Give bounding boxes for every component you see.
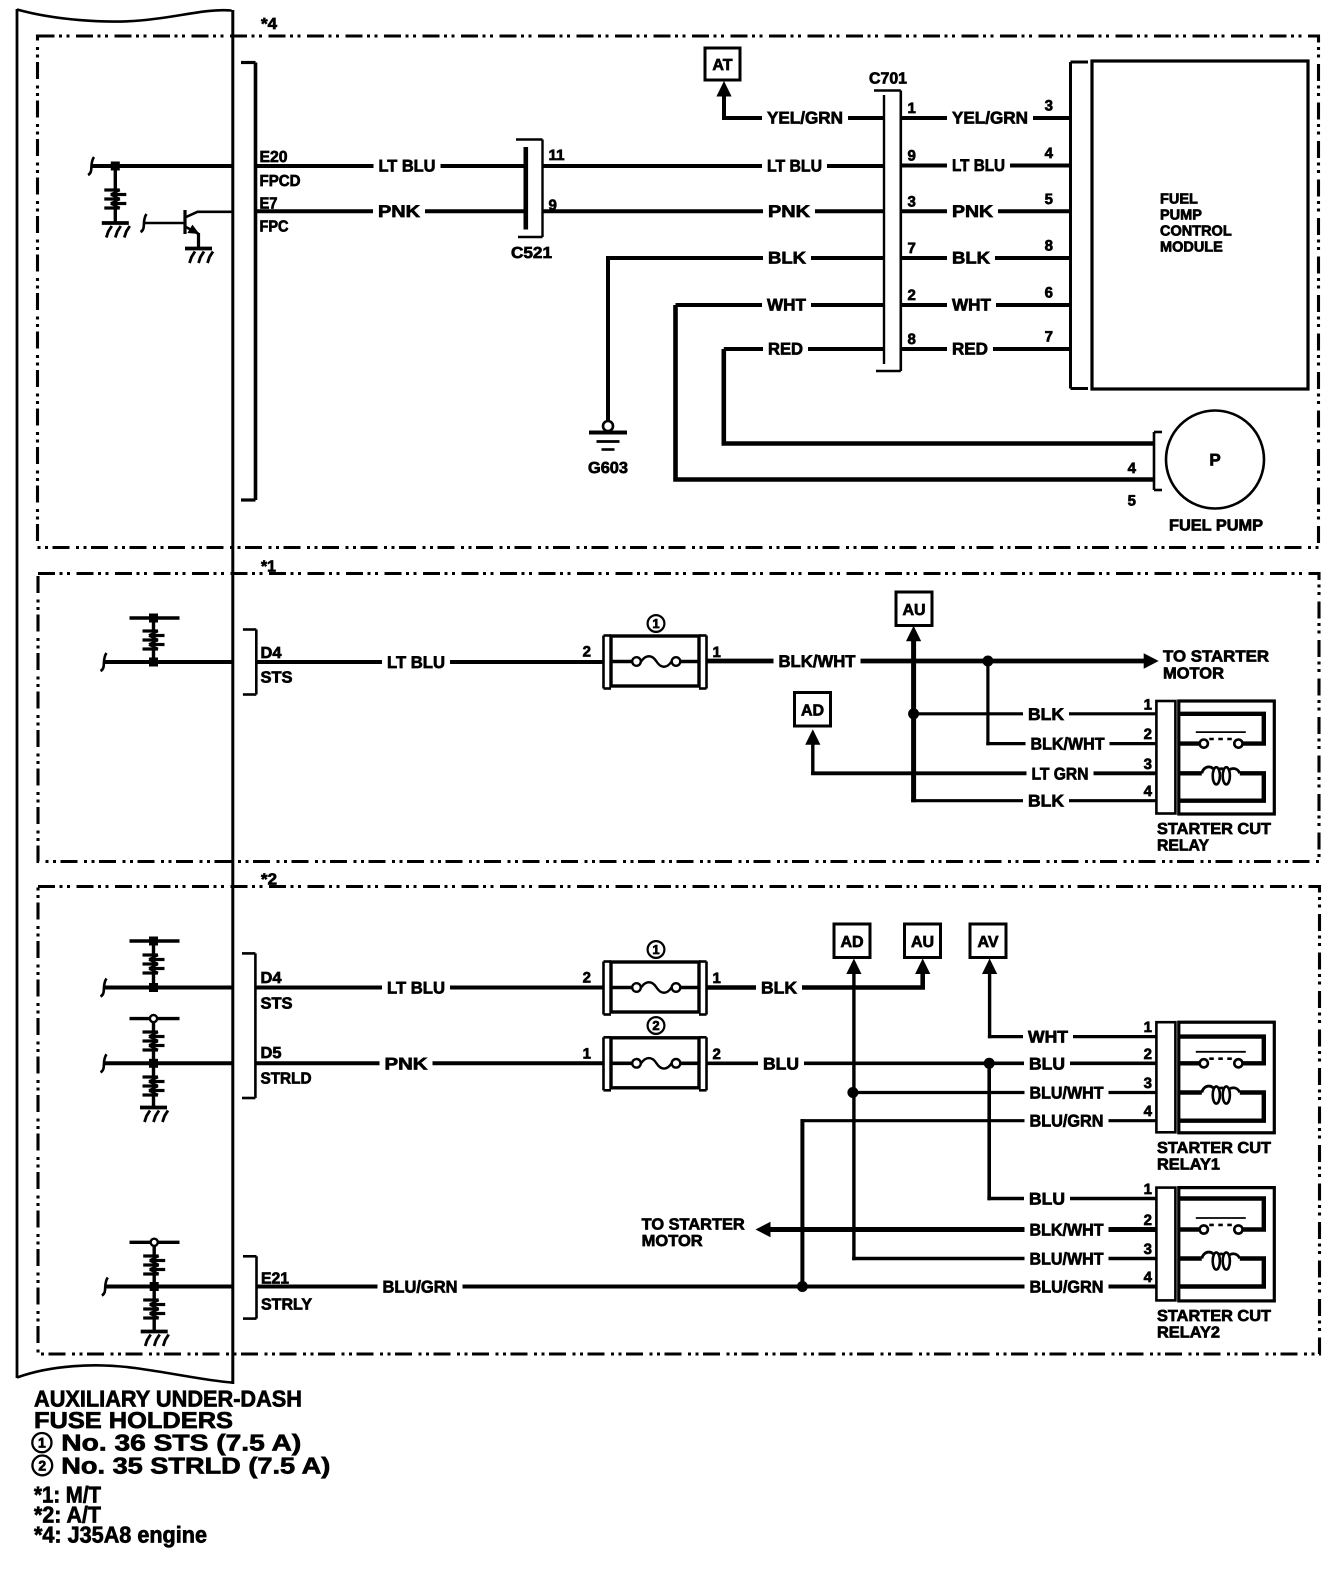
svg-text:MOTOR: MOTOR [1163,666,1224,683]
svg-text:TO STARTER: TO STARTER [1163,649,1269,666]
svg-text:*4: *4 [261,16,277,33]
svg-text:8: 8 [1045,238,1053,255]
svg-text:P: P [1209,451,1220,470]
svg-text:1: 1 [38,1435,46,1451]
svg-text:BLU: BLU [1029,1054,1065,1073]
svg-text:BLU: BLU [763,1054,799,1073]
svg-text:STARTER CUT: STARTER CUT [1157,1140,1271,1157]
svg-text:RED: RED [952,340,988,359]
svg-text:PNK: PNK [385,1054,429,1073]
svg-text:LT BLU: LT BLU [379,157,436,176]
svg-text:TO STARTER: TO STARTER [642,1217,745,1234]
svg-text:PNK: PNK [378,202,421,221]
svg-text:4: 4 [1128,460,1137,477]
svg-text:STARTER CUT: STARTER CUT [1157,821,1271,838]
svg-text:5: 5 [1045,191,1053,208]
svg-text:11: 11 [549,147,565,164]
svg-text:FUEL: FUEL [1160,192,1198,208]
svg-text:FUEL PUMP: FUEL PUMP [1169,518,1263,535]
svg-text:BLK: BLK [1028,705,1065,724]
svg-text:2: 2 [583,644,591,661]
svg-text:D5: D5 [261,1045,282,1062]
svg-text:AU: AU [902,602,925,619]
svg-text:2: 2 [652,1018,659,1033]
svg-text:FPCD: FPCD [260,173,301,190]
svg-text:*2: *2 [261,872,277,889]
svg-text:C701: C701 [869,71,907,88]
svg-text:1: 1 [1144,1019,1152,1036]
svg-text:AT: AT [712,57,732,74]
svg-text:4: 4 [1144,1103,1153,1120]
svg-text:STS: STS [261,996,293,1013]
svg-text:BLK: BLK [761,979,798,998]
svg-text:6: 6 [1045,285,1053,302]
svg-text:2: 2 [713,1046,721,1063]
svg-text:E20: E20 [260,149,288,166]
svg-text:RED: RED [768,340,803,359]
svg-text:1: 1 [652,942,659,957]
svg-text:WHT: WHT [952,296,992,315]
svg-text:1: 1 [1144,1181,1152,1198]
svg-text:9: 9 [908,148,916,165]
svg-text:2: 2 [908,287,916,304]
svg-text:PUMP: PUMP [1160,208,1202,224]
svg-text:2: 2 [1144,726,1152,743]
svg-text:BLU/GRN: BLU/GRN [1030,1278,1104,1297]
svg-text:PNK: PNK [768,202,811,221]
svg-text:C521: C521 [511,245,552,262]
svg-text:3: 3 [1144,1241,1152,1258]
svg-text:PNK: PNK [952,202,994,221]
svg-text:BLK/WHT: BLK/WHT [1030,1221,1105,1240]
svg-text:4: 4 [1045,145,1054,162]
svg-text:FPC: FPC [260,219,289,236]
svg-text:BLK: BLK [768,249,807,268]
svg-text:No. 35 STRLD (7.5 A): No. 35 STRLD (7.5 A) [61,1453,330,1479]
svg-text:D4: D4 [261,970,282,987]
svg-text:1: 1 [1144,696,1152,713]
svg-text:BLU: BLU [1029,1190,1065,1209]
svg-text:4: 4 [1144,1269,1153,1286]
svg-text:YEL/GRN: YEL/GRN [767,109,843,128]
svg-text:1: 1 [713,970,721,987]
svg-text:8: 8 [908,331,916,348]
svg-text:LT BLU: LT BLU [387,653,445,672]
svg-text:BLU/WHT: BLU/WHT [1030,1250,1105,1269]
svg-text:7: 7 [908,240,916,257]
svg-text:5: 5 [1128,493,1136,510]
svg-text:WHT: WHT [1028,1028,1069,1047]
svg-text:BLK: BLK [952,249,991,268]
svg-text:AD: AD [840,934,863,951]
svg-text:AU: AU [911,934,934,951]
svg-text:LT BLU: LT BLU [767,157,822,176]
svg-text:1: 1 [713,644,721,661]
svg-text:4: 4 [1144,783,1153,800]
svg-text:G603: G603 [588,460,628,477]
svg-text:LT BLU: LT BLU [387,979,445,998]
svg-text:LT GRN: LT GRN [1032,764,1089,783]
svg-text:BLK/WHT: BLK/WHT [779,652,857,671]
svg-text:MOTOR: MOTOR [642,1233,703,1250]
svg-text:AV: AV [977,934,998,951]
svg-text:STS: STS [261,670,293,687]
svg-text:AD: AD [801,702,824,719]
svg-text:2: 2 [1144,1212,1152,1229]
svg-text:STRLD: STRLD [261,1071,312,1088]
svg-text:WHT: WHT [767,296,807,315]
svg-text:STRLY: STRLY [261,1297,312,1314]
svg-text:D4: D4 [261,645,282,662]
svg-text:RELAY1: RELAY1 [1157,1156,1220,1173]
svg-text:3: 3 [1144,756,1152,773]
svg-text:7: 7 [1045,329,1053,346]
svg-text:RELAY2: RELAY2 [1157,1325,1220,1342]
svg-text:1: 1 [908,100,916,117]
svg-text:CONTROL: CONTROL [1160,224,1232,240]
svg-text:*4: J35A8 engine: *4: J35A8 engine [34,1522,207,1548]
svg-text:3: 3 [908,193,916,210]
svg-text:BLU/GRN: BLU/GRN [1030,1112,1104,1131]
svg-text:2: 2 [1144,1046,1152,1063]
svg-text:YEL/GRN: YEL/GRN [952,109,1028,128]
svg-text:1: 1 [583,1045,591,1062]
svg-text:2: 2 [38,1457,46,1473]
svg-text:MODULE: MODULE [1160,240,1223,256]
svg-text:BLU/WHT: BLU/WHT [1030,1084,1105,1103]
svg-text:3: 3 [1045,98,1053,115]
svg-text:LT BLU: LT BLU [952,156,1005,175]
svg-text:BLK: BLK [1028,792,1065,811]
svg-text:BLK/WHT: BLK/WHT [1031,735,1106,754]
svg-text:BLU/GRN: BLU/GRN [383,1278,458,1297]
svg-text:*1: *1 [261,559,276,576]
svg-text:3: 3 [1144,1075,1152,1092]
svg-text:1: 1 [652,616,659,631]
svg-text:RELAY: RELAY [1157,838,1209,855]
svg-text:STARTER CUT: STARTER CUT [1157,1308,1271,1325]
svg-text:2: 2 [583,970,591,987]
